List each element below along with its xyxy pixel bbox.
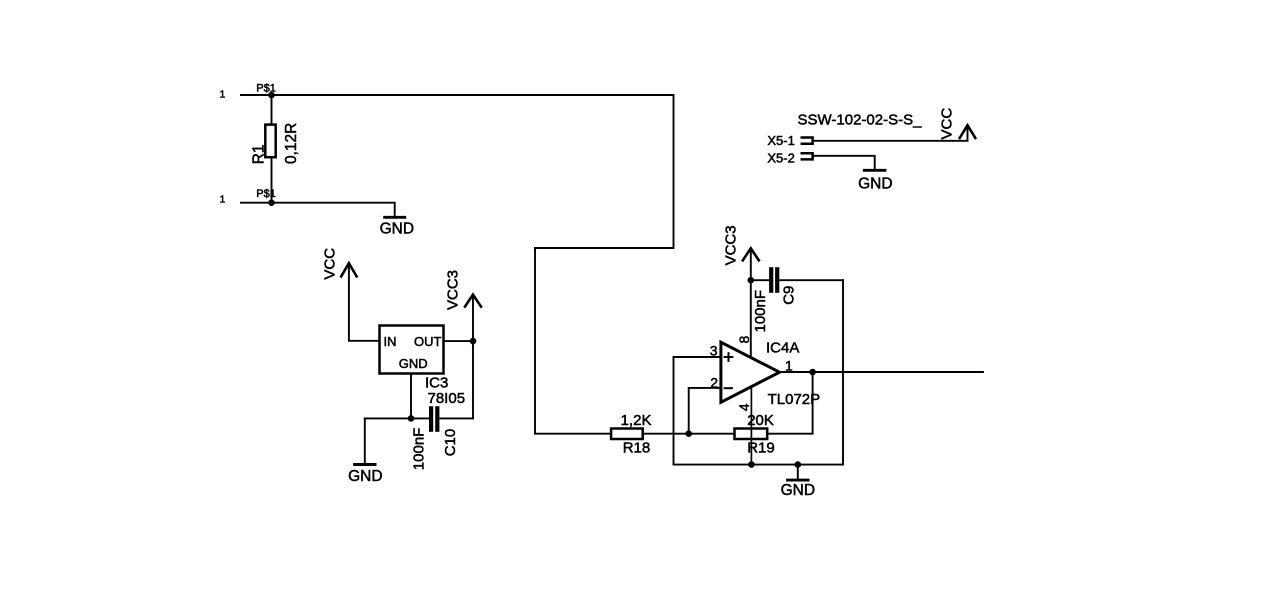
- svg-text:R19: R19: [747, 439, 775, 456]
- svg-text:GND: GND: [399, 356, 428, 371]
- svg-text:VCC: VCC: [322, 248, 339, 280]
- svg-text:GND: GND: [348, 468, 382, 485]
- svg-text:OUT: OUT: [414, 334, 442, 349]
- svg-text:78I05: 78I05: [428, 390, 466, 407]
- svg-text:VCC3: VCC3: [444, 270, 461, 310]
- svg-text:VCC: VCC: [939, 108, 956, 140]
- svg-text:1: 1: [785, 358, 793, 374]
- svg-text:IC3: IC3: [425, 374, 448, 391]
- svg-text:X5-1: X5-1: [767, 133, 794, 148]
- svg-text:8: 8: [736, 336, 752, 344]
- svg-text:1: 1: [220, 193, 226, 205]
- svg-text:GND: GND: [380, 221, 414, 238]
- svg-text:0,12R: 0,12R: [283, 123, 300, 164]
- svg-text:20K: 20K: [747, 412, 774, 429]
- svg-text:2: 2: [710, 374, 718, 390]
- svg-text:C10: C10: [442, 429, 459, 457]
- svg-text:GND: GND: [781, 482, 815, 499]
- svg-text:IN: IN: [384, 334, 397, 349]
- svg-text:GND: GND: [858, 176, 892, 193]
- svg-text:100nF: 100nF: [411, 428, 428, 471]
- svg-text:TL072P: TL072P: [768, 391, 821, 408]
- svg-text:C9: C9: [780, 286, 797, 305]
- svg-text:P$1: P$1: [256, 82, 276, 94]
- svg-text:SSW-102-02-S-S_: SSW-102-02-S-S_: [798, 112, 923, 129]
- svg-text:R1: R1: [251, 144, 268, 164]
- svg-text:X5-2: X5-2: [767, 151, 794, 166]
- svg-text:IC4A: IC4A: [766, 340, 799, 357]
- svg-text:VCC3: VCC3: [722, 225, 739, 265]
- svg-text:1,2K: 1,2K: [621, 412, 652, 429]
- svg-text:100nF: 100nF: [752, 290, 769, 333]
- svg-text:P$1: P$1: [256, 188, 276, 200]
- svg-text:R18: R18: [623, 439, 651, 456]
- svg-text:4: 4: [736, 403, 752, 411]
- svg-text:3: 3: [710, 343, 718, 359]
- svg-text:1: 1: [220, 89, 226, 101]
